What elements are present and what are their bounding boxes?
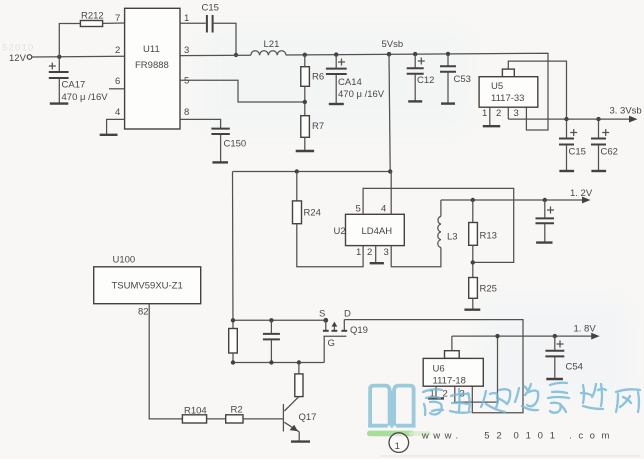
svg-text:0101: 0101 xyxy=(514,431,562,442)
svg-text:C62: C62 xyxy=(601,147,618,158)
svg-text:470 μ /16V: 470 μ /16V xyxy=(62,92,109,103)
node 5Vsb xyxy=(382,39,404,57)
ground U11 pin4 xyxy=(100,134,118,136)
ground U5 pin1 xyxy=(483,125,500,127)
svg-text:4: 4 xyxy=(381,204,386,215)
wire U11 pin5 bend to R6/R7 junction xyxy=(180,80,305,102)
svg-text:2: 2 xyxy=(496,108,501,119)
node junction R6 top xyxy=(303,53,307,57)
resistor R13 xyxy=(469,223,497,246)
capacitor CA14 470u/16V xyxy=(326,55,385,104)
resistor R24 xyxy=(293,201,321,224)
node junction CA14 xyxy=(334,52,338,56)
svg-text:3. 3Vsb: 3. 3Vsb xyxy=(610,106,642,117)
svg-text:1: 1 xyxy=(356,247,361,258)
watermark green bar xyxy=(367,431,415,437)
wire U11 pin1 to C15 xyxy=(180,22,206,24)
node junction cap bottom xyxy=(269,360,273,364)
svg-text:3: 3 xyxy=(514,108,519,119)
wire 3.3Vsb rail xyxy=(508,118,630,120)
op-amp U2 LD4AH xyxy=(334,204,405,259)
node junction left resistor top xyxy=(231,318,235,322)
wire U11 pin4 to ground xyxy=(107,119,125,134)
ground C12 xyxy=(408,100,422,102)
resistor R25 xyxy=(469,278,497,299)
svg-text:R2: R2 xyxy=(231,405,243,416)
node 3.3Vsb arrow xyxy=(610,106,642,123)
svg-text:U11: U11 xyxy=(143,44,160,55)
svg-text:3: 3 xyxy=(384,247,389,258)
wire R24 bottom to U2 pin1 xyxy=(297,224,363,267)
node junction C54 rail xyxy=(553,334,557,338)
wire U11 pin6 stub xyxy=(109,88,125,90)
svg-text:Q17: Q17 xyxy=(299,412,317,423)
svg-text:.com: .com xyxy=(569,431,616,442)
svg-text:8: 8 xyxy=(184,107,189,118)
svg-text:S: S xyxy=(319,309,325,320)
svg-text:1. 2V: 1. 2V xyxy=(570,188,593,199)
wire U6 pin2 loop to 1.8V rail xyxy=(455,336,498,402)
svg-text:www.: www. xyxy=(421,431,463,442)
svg-text:D: D xyxy=(344,309,351,320)
svg-text:TSUMV59XU-Z1: TSUMV59XU-Z1 xyxy=(112,281,183,292)
wire 5Vsb down to lower rail xyxy=(389,54,390,171)
background tint patch top middle xyxy=(200,30,470,130)
node junction cap top xyxy=(269,318,273,322)
ground C150 xyxy=(212,161,228,163)
svg-text:3: 3 xyxy=(184,45,189,56)
svg-text:U100: U100 xyxy=(113,255,136,266)
svg-text:U5: U5 xyxy=(491,81,503,92)
resistor R6 xyxy=(301,67,324,87)
wire R7 to ground xyxy=(304,137,306,150)
svg-text:52010: 52010 xyxy=(2,43,34,54)
wire R104 to R2 xyxy=(207,418,226,420)
capacitor C15 xyxy=(202,3,219,33)
svg-text:5: 5 xyxy=(356,204,361,215)
regulator U6 1117-18 xyxy=(423,351,483,400)
transistor Q19 mosfet xyxy=(319,309,368,363)
wire U5 pin1 to ground xyxy=(489,107,491,126)
svg-text:1117-18: 1117-18 xyxy=(433,376,466,387)
svg-text:R7: R7 xyxy=(312,121,324,132)
svg-text:CA14: CA14 xyxy=(338,77,362,88)
wire U5 pin2 to 3.3Vsb rail xyxy=(507,107,509,119)
svg-text:R13: R13 xyxy=(480,231,497,242)
ground U2 pin2 xyxy=(370,262,384,264)
capacitor CA17 470u/16V xyxy=(49,57,109,103)
node junction pin2 rail xyxy=(495,334,499,338)
svg-text:C53: C53 xyxy=(454,74,471,85)
node 1.2V arrow xyxy=(570,188,593,203)
ground C53 xyxy=(441,102,455,104)
wire R6 top stub xyxy=(304,55,306,67)
svg-text:R25: R25 xyxy=(480,284,497,295)
svg-text:FR9888: FR9888 xyxy=(135,60,169,71)
ground CA17 xyxy=(50,102,69,104)
wire R2 to Q17 base xyxy=(243,418,283,420)
capacitor C53 xyxy=(440,54,471,103)
node 12V input terminal xyxy=(9,53,32,64)
resistor unlabeled Q17 collector xyxy=(295,374,303,397)
watermark circled 1 xyxy=(389,433,409,453)
ground Q17 xyxy=(291,440,310,442)
transistor Q17 xyxy=(283,397,316,441)
node junction C12 xyxy=(413,52,417,56)
regulator U5 1117-33 xyxy=(479,69,538,119)
watermark url www.520101.com xyxy=(421,431,616,442)
svg-text:1: 1 xyxy=(395,441,400,452)
svg-text:L3: L3 xyxy=(447,232,458,243)
wire Q19 drain rail to U6 pin3 xyxy=(344,320,523,413)
node junction Q17 resistor top xyxy=(297,360,301,364)
background tint patch right xyxy=(480,300,630,400)
node junction R13/R25 xyxy=(471,260,475,264)
wire U5 tab to output junction xyxy=(508,61,566,119)
ground C15 output xyxy=(559,170,574,172)
wire R212 to U11 pin7 xyxy=(103,22,125,24)
svg-text:L21: L21 xyxy=(264,39,280,50)
svg-text:Q19: Q19 xyxy=(350,325,368,336)
node 1.8V arrow xyxy=(574,324,600,340)
wire junction up to R212 xyxy=(59,24,80,57)
ground R7 xyxy=(296,150,314,152)
capacitor C12 xyxy=(407,54,435,101)
node junction C62 output xyxy=(596,117,600,121)
wire R13 bottom to junction xyxy=(472,245,474,277)
wire U100 pin82 to R104 xyxy=(149,304,182,419)
watermark green bar faint right xyxy=(409,431,431,436)
wire U6 pin1 to ground xyxy=(435,386,437,398)
scan streak bottom xyxy=(380,455,640,457)
resistor R7 xyxy=(301,116,324,138)
svg-text:LD4AH: LD4AH xyxy=(362,226,393,237)
ground R25 xyxy=(464,309,480,311)
svg-text:470 μ /16V: 470 μ /16V xyxy=(338,89,385,100)
wire U2 pin5 feedback loop xyxy=(363,188,514,262)
node junction R13 top xyxy=(471,198,475,202)
inductor L3 xyxy=(438,200,458,248)
svg-text:U2: U2 xyxy=(334,226,346,237)
wire 1.8V rail xyxy=(452,335,593,337)
wire 12V to U11 pin2 xyxy=(32,55,125,58)
capacitor C54 xyxy=(545,336,583,379)
node junction 12V/CA17 xyxy=(57,55,61,59)
wire resistor to Q17 collector xyxy=(298,363,300,374)
svg-text:C15: C15 xyxy=(202,3,219,14)
wire bottom gate rail xyxy=(233,362,324,364)
resistor R104 xyxy=(182,406,206,424)
watermark book icon xyxy=(368,386,416,428)
svg-text:12V: 12V xyxy=(9,53,27,64)
svg-text:7: 7 xyxy=(115,13,120,24)
node junction R6/R7 xyxy=(303,100,307,104)
svg-text:1. 8V: 1. 8V xyxy=(574,324,597,335)
ground C62 xyxy=(591,170,606,172)
ground 1.2V cap xyxy=(536,241,552,243)
svg-text:1: 1 xyxy=(184,13,189,24)
svg-text:C150: C150 xyxy=(224,139,247,150)
svg-text:1: 1 xyxy=(482,108,487,119)
svg-text:C15: C15 xyxy=(569,147,586,158)
wire top gate rail xyxy=(233,319,326,321)
svg-text:2: 2 xyxy=(115,45,120,56)
wire resistor to lower rail xyxy=(232,353,234,363)
wire C15 down to pin3 row xyxy=(214,23,236,55)
resistor unlabeled (left vertical) xyxy=(229,329,238,354)
ground U6 pin1 xyxy=(428,397,444,399)
wire left vertical down xyxy=(232,172,235,329)
capacitor C62 xyxy=(591,119,618,171)
svg-text:C54: C54 xyxy=(566,362,583,373)
chip U100 TSUMV59XU-Z1 xyxy=(94,255,201,318)
ground C54 xyxy=(546,378,563,380)
capacitor unlabeled 1.2V xyxy=(536,200,555,242)
wire mid rail xyxy=(233,171,391,173)
svg-text:6: 6 xyxy=(115,76,120,87)
node junction C15/pin3 xyxy=(234,53,238,57)
svg-text:C12: C12 xyxy=(417,75,434,86)
wire U2 pin4 up to rail xyxy=(390,172,392,215)
wire 1.2V rail xyxy=(441,199,585,201)
resistor R2 xyxy=(226,405,243,424)
svg-text:1117-33: 1117-33 xyxy=(491,93,524,104)
svg-text:R24: R24 xyxy=(304,208,321,219)
svg-text:CA17: CA17 xyxy=(62,80,86,91)
node junction C53 xyxy=(446,52,450,56)
capacitor C150 xyxy=(211,129,246,162)
ground CA14 xyxy=(329,103,344,105)
node junction 1.2V cap xyxy=(543,198,547,202)
wire 5Vsb rail xyxy=(286,53,548,130)
node junction mid rail 5Vsb/U2 pin4 xyxy=(388,169,392,173)
inductor L21 xyxy=(251,39,286,55)
wire U2 pin2 to ground xyxy=(375,246,377,263)
node junction C15 output xyxy=(564,117,568,121)
wire R13 stub xyxy=(472,200,474,223)
wire U6 tab up to 1.8V rail xyxy=(451,336,453,351)
wire U11 pin3 to L21 xyxy=(180,54,251,56)
svg-text:5: 5 xyxy=(184,76,189,87)
svg-text:82: 82 xyxy=(138,307,149,318)
capacitor unlabeled gate xyxy=(263,320,280,362)
wire U11 pin8 to C150 xyxy=(180,119,221,128)
svg-text:52: 52 xyxy=(484,431,508,442)
node junction left resistor bottom xyxy=(231,360,235,364)
node junction mid rail R24 xyxy=(295,169,299,173)
op-amp U11 FR9888 xyxy=(115,8,189,129)
svg-text:2: 2 xyxy=(367,247,372,258)
svg-text:U6: U6 xyxy=(433,364,445,375)
svg-text:4: 4 xyxy=(115,107,120,118)
svg-text:R6: R6 xyxy=(312,72,324,83)
resistor R212 xyxy=(80,11,103,27)
wire R24 stub top xyxy=(296,172,298,201)
watermark chinese characters xyxy=(423,383,640,415)
wire U2 pin3 to L3 xyxy=(391,246,441,267)
capacitor C15 (output) xyxy=(559,119,586,171)
wire R6 bottom to R7 top xyxy=(304,86,306,115)
svg-text:G: G xyxy=(328,338,335,349)
wire R25 to ground xyxy=(472,298,474,309)
svg-text:5Vsb: 5Vsb xyxy=(382,39,404,50)
